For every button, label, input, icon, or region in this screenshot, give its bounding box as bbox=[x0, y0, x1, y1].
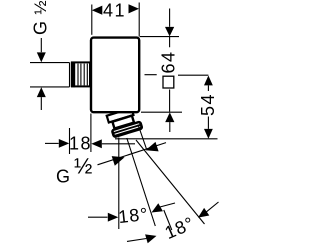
dimension 18: right extension line (body face extended) bbox=[90, 114, 92, 153]
angle dim 1: right leader bbox=[158, 203, 175, 208]
connector neck bbox=[112, 116, 134, 129]
body center line (axis), left and right of text bbox=[145, 74, 209, 77]
dimension 64: upper dim line bbox=[169, 9, 171, 27]
wall supply stub: step outline (thin pipe section / extension lines) bbox=[30, 63, 70, 87]
nut-left leader arrow (points up-right) bbox=[112, 156, 125, 166]
dimension 41: right arrow bbox=[129, 4, 140, 13]
fan line L1 (18deg) bbox=[127, 138, 156, 226]
svg-text:G: G bbox=[56, 166, 70, 186]
dimension 18: right arrow bbox=[91, 139, 102, 148]
connector tip line (upper axis segment) bbox=[138, 125, 147, 150]
svg-text:½: ½ bbox=[31, 0, 50, 14]
dimension 18 (stub depth): left leader bbox=[45, 142, 59, 144]
escutcheon body (square wall plate, side view) bbox=[91, 38, 139, 113]
svg-text:18: 18 bbox=[69, 134, 92, 154]
dimension 64: bottom extension line bbox=[141, 111, 182, 113]
dimension 18: right leader bbox=[102, 143, 135, 145]
angle dim 1: left leader bbox=[88, 216, 108, 218]
angle dim 2: right leader bbox=[206, 202, 219, 212]
dimension 41: left extension line bbox=[91, 5, 93, 35]
svg-text:41: 41 bbox=[103, 1, 126, 21]
angle dim 2: left arrow (points up-right at L1) bbox=[145, 234, 156, 243]
dimension 18: left arrow bbox=[59, 139, 70, 148]
dimension 64: dim line segments bbox=[169, 37, 171, 112]
dimension 64: top extension line bbox=[140, 36, 179, 38]
nut-right arrow (points down-left) bbox=[146, 142, 159, 152]
angle dim 2: right arrow (points down-left at L2) bbox=[198, 208, 209, 218]
connector flange bbox=[107, 108, 134, 122]
angle dim 1: right arrow (points down-left at L1) bbox=[152, 203, 163, 212]
angle dim 1: left arrow (points right at L0) bbox=[108, 213, 119, 222]
outlet connector, tilted 17deg bbox=[106, 107, 144, 139]
dimension 64: lower dim line bbox=[169, 122, 171, 132]
dimension 41: right extension line bbox=[138, 3, 140, 37]
dimension 54: dim line segments bbox=[207, 85, 209, 128]
fan line L0 (vertical, 0deg) bbox=[118, 138, 120, 230]
fan line L2 (36deg) bbox=[136, 140, 205, 224]
connector knurled nut (black with stripes) bbox=[110, 120, 143, 139]
axis line lower segment bbox=[164, 210, 172, 230]
dimension G1/2: bottom arrow bbox=[37, 87, 46, 97]
dimension G1/2: top arrow bbox=[37, 52, 46, 62]
dimension G1/2: dim line lower bbox=[40, 97, 42, 110]
svg-text:54: 54 bbox=[198, 93, 218, 116]
dimension 64: square symbol bbox=[163, 76, 174, 88]
dimension G1/2 (left): dim line upper bbox=[40, 38, 42, 52]
svg-text:½: ½ bbox=[74, 154, 92, 179]
dimension 54: bottom extension line (outlet level) bbox=[115, 138, 218, 140]
wall supply stub: thread block outline bbox=[72, 62, 90, 86]
dimension 64: bottom arrow (outside, pointing up) bbox=[165, 112, 174, 122]
dimension 54: bottom arrow (inside, pointing down) bbox=[204, 129, 213, 139]
svg-text:64: 64 bbox=[159, 50, 179, 73]
leader line through nut arrows bbox=[98, 143, 167, 165]
dimension 54: top arrow (inside, pointing up) bbox=[204, 76, 213, 86]
svg-text:G: G bbox=[30, 21, 50, 35]
svg-text:18°: 18° bbox=[117, 204, 149, 227]
dimension 41: left arrow bbox=[92, 6, 103, 15]
wall supply stub: black chamfer band bbox=[71, 62, 75, 88]
wall supply stub: thread lines bbox=[78, 64, 87, 86]
dimension 64: top arrow (outside, pointing down) bbox=[165, 27, 174, 37]
angle dim 2: left leader bbox=[127, 239, 146, 242]
dimension 18: left extension line bbox=[69, 128, 71, 154]
